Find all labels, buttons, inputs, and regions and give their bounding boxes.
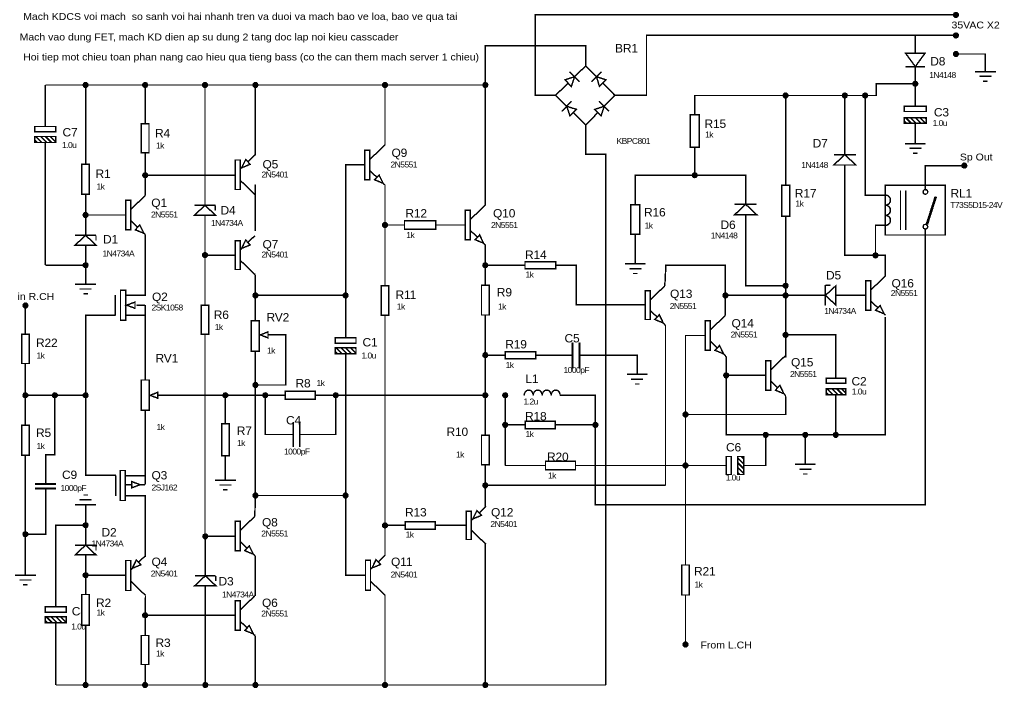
resistor R9 (482, 265, 513, 355)
svg-text:R16: R16 (644, 206, 666, 220)
potentiometer RV1 (141, 352, 178, 433)
svg-text:1k: 1k (548, 471, 557, 481)
svg-text:D1: D1 (103, 233, 119, 247)
transistor Q1 (126, 196, 179, 235)
wire Q3 drain to Q4 emitter (125, 496, 145, 557)
svg-text:1.0u: 1.0u (62, 140, 77, 150)
terminal 35VAC X2 (952, 12, 1000, 39)
svg-text:1k: 1k (406, 230, 415, 240)
svg-text:R14: R14 (525, 248, 547, 262)
svg-text:R11: R11 (396, 288, 417, 302)
wire Q1 emitter to Q2 drain (126, 235, 146, 296)
transistor Q12 (466, 506, 517, 545)
transistor Q7 (235, 236, 289, 275)
svg-text:1N4734A: 1N4734A (222, 590, 254, 600)
svg-text:D2: D2 (102, 526, 118, 540)
resistor R11 (381, 225, 416, 525)
svg-text:R21: R21 (694, 565, 716, 579)
ground symbol inverted above D2 (75, 495, 96, 525)
wire Q15 base (726, 374, 766, 376)
wire Q15 collector up (784, 335, 786, 358)
svg-text:From L.CH: From L.CH (701, 640, 752, 652)
svg-text:C4: C4 (286, 414, 302, 428)
svg-text:R10: R10 (447, 425, 469, 439)
svg-text:BR1: BR1 (615, 42, 638, 56)
capacitor C8 (45, 605, 87, 686)
svg-text:1k: 1k (695, 580, 704, 590)
wire Q7 collector to C1 node (255, 294, 345, 296)
ground on emitter bus (795, 435, 816, 474)
resistor R17 (782, 96, 817, 335)
resistor R4 (141, 85, 170, 175)
svg-text:D8: D8 (930, 55, 946, 69)
svg-text:1000pF: 1000pF (284, 447, 310, 457)
input terminal in R.CH (18, 291, 55, 309)
svg-text:Mach KDCS voi mach so sanh vo: Mach KDCS voi mach so sanh voi hai nhanh… (23, 11, 457, 23)
wire Q8 collector up (254, 496, 257, 517)
wire FET gate bus (86, 315, 116, 395)
wire Q9 collector to rail (384, 85, 386, 145)
resistor R15 (690, 84, 915, 176)
wire Q4 collector to Q6 base (145, 614, 235, 616)
wire R9 bottom to output node (484, 355, 486, 395)
terminal From L.CH (682, 640, 751, 652)
svg-text:Q15: Q15 (791, 356, 814, 370)
svg-text:2N5551: 2N5551 (151, 210, 178, 220)
wire Q8 base (205, 535, 235, 537)
svg-text:1k: 1k (237, 438, 246, 448)
wire Q11 collector to rail (384, 595, 386, 685)
wire input node (25, 394, 85, 396)
svg-text:1k: 1k (506, 360, 515, 370)
svg-text:1k: 1k (397, 302, 406, 312)
transistor Q6 (235, 596, 288, 635)
svg-text:1k: 1k (157, 422, 166, 432)
svg-text:1.0u: 1.0u (362, 351, 377, 361)
wire Q5 emitter to rail (254, 85, 257, 155)
wire rail to BR1 plus output (485, 46, 585, 85)
capacitor C2 (786, 335, 867, 435)
svg-text:1k: 1k (705, 130, 714, 140)
svg-text:D4: D4 (221, 204, 237, 218)
svg-text:RV1: RV1 (156, 352, 179, 366)
wire C1 line to Q11 base (346, 496, 366, 576)
svg-text:1N4148: 1N4148 (929, 70, 956, 80)
wire relay coil supply (865, 96, 885, 196)
wire Q4 emitter up (144, 556, 146, 557)
wire speaker line to relay (595, 235, 925, 505)
zener diode D1 (75, 215, 135, 265)
diode D6 (695, 175, 786, 286)
capacitor C3 (904, 84, 949, 144)
svg-text:R20: R20 (547, 450, 569, 464)
svg-text:R18: R18 (525, 410, 547, 424)
svg-text:35VAC X2: 35VAC X2 (952, 20, 1000, 32)
svg-text:R9: R9 (497, 286, 513, 300)
svg-text:Sp Out: Sp Out (960, 152, 993, 164)
wire Q4 collector down (144, 595, 146, 615)
transistor Q16 (866, 276, 918, 315)
wire Q12 collector to rail (484, 544, 487, 685)
transistor Q14 (705, 316, 758, 355)
wire Q14 collector up (724, 295, 726, 315)
svg-text:C1: C1 (363, 336, 379, 350)
svg-text:R8: R8 (296, 377, 312, 391)
wire Q8 emitter to Q6 collector (254, 556, 256, 596)
svg-text:2N5551: 2N5551 (670, 301, 697, 311)
wire Q9 emitter down (384, 185, 386, 225)
svg-text:1k: 1k (406, 530, 415, 540)
svg-text:C5: C5 (565, 332, 581, 346)
svg-text:Q3: Q3 (152, 469, 168, 483)
wire BR1 minus output to negative rail (586, 125, 606, 685)
wire Q10 emitter down (484, 245, 486, 266)
resistor R1 (82, 85, 111, 215)
wire feedback line (150, 394, 225, 396)
bridge rectifier BR1 (556, 42, 651, 147)
svg-text:C7: C7 (63, 126, 79, 140)
svg-text:D7: D7 (813, 137, 829, 151)
svg-text:2N5551: 2N5551 (261, 609, 288, 619)
zener diode D2 (75, 525, 124, 575)
svg-text:1000pF: 1000pF (61, 483, 87, 493)
svg-text:1k: 1k (97, 182, 106, 192)
svg-text:1.0u: 1.0u (852, 387, 867, 397)
wire Q8 node to Q11 base line (255, 495, 345, 497)
wire Q7 base (205, 254, 235, 256)
svg-text:2SJ162: 2SJ162 (152, 483, 178, 493)
svg-text:1k: 1k (267, 346, 276, 356)
zener diode D3 (195, 536, 255, 685)
diode D8 (906, 35, 957, 83)
svg-text:1N4734A: 1N4734A (92, 539, 124, 549)
resistor R13 (385, 506, 466, 540)
svg-text:R7: R7 (237, 424, 253, 438)
wire Q7 collector down (254, 274, 256, 295)
wire Q2 source to RV1 (144, 315, 146, 380)
svg-text:2N5551: 2N5551 (261, 529, 288, 539)
svg-text:C9: C9 (62, 468, 78, 482)
svg-text:2N5551: 2N5551 (790, 369, 817, 379)
wire Q12 emitter up (484, 485, 487, 506)
relay RL1 (885, 185, 1003, 235)
resistor R5 (22, 395, 52, 575)
wire L1 right (560, 395, 595, 425)
transistor Q8 (235, 516, 288, 556)
wire to C8 (56, 525, 86, 607)
svg-text:2N5401: 2N5401 (391, 570, 418, 580)
svg-text:2N5551: 2N5551 (731, 330, 758, 340)
capacitor C9 (25, 395, 86, 534)
resistor R18 (505, 410, 595, 440)
resistor R7 (222, 395, 253, 480)
wire Q6 emitter to rail (254, 635, 256, 685)
svg-text:1N4148: 1N4148 (711, 231, 738, 241)
ground below C5 (627, 373, 648, 375)
wire Q1 base (86, 214, 126, 216)
svg-text:1k: 1k (498, 302, 507, 312)
wire negative bottom rail (56, 684, 606, 686)
capacitor C1 (335, 295, 378, 495)
wire Q13 Q14 collectors to D5 (725, 294, 824, 296)
potentiometer RV2 (251, 295, 289, 385)
svg-text:R4: R4 (155, 127, 171, 141)
resistor R3 (141, 615, 171, 685)
svg-text:Q14: Q14 (732, 317, 755, 331)
svg-text:R5: R5 (36, 426, 52, 440)
svg-text:Q13: Q13 (670, 287, 693, 301)
ground below R7 (215, 479, 236, 481)
svg-text:1k: 1k (37, 351, 46, 361)
resistor R19 (485, 338, 571, 371)
wire output emitter bus (485, 484, 665, 486)
svg-text:1000pF: 1000pF (564, 365, 590, 375)
resistor R8 (285, 377, 485, 400)
svg-text:RV2: RV2 (267, 311, 290, 325)
svg-text:1k: 1k (156, 649, 165, 659)
wire Q9 base (346, 165, 365, 296)
svg-text:2N5551: 2N5551 (491, 220, 518, 230)
wire gate bus to Q3 (86, 395, 116, 475)
wire feedback to C4 R8 (225, 394, 285, 396)
svg-text:2N5401: 2N5401 (490, 519, 517, 529)
svg-text:1k: 1k (795, 199, 804, 209)
wire 35VAC line 1 to BR1 left (535, 15, 956, 96)
svg-text:2SK1058: 2SK1058 (152, 303, 184, 313)
wire Q1 collector up (144, 175, 146, 195)
wire Q15 emitter return (686, 395, 786, 414)
MOSFET Q3 (116, 469, 178, 501)
svg-text:R19: R19 (505, 338, 527, 352)
transistor Q10 (465, 205, 518, 244)
svg-text:L1: L1 (525, 372, 539, 386)
zener diode D5 (824, 269, 866, 317)
wire Q14 base (686, 336, 706, 415)
capacitor C5 (564, 332, 590, 376)
transistor Q5 (235, 155, 289, 194)
svg-text:R22: R22 (36, 336, 58, 350)
svg-text:2N5401: 2N5401 (262, 170, 289, 180)
wire node A riser (504, 395, 506, 465)
resistor R10 (447, 395, 490, 485)
transistor Q9 (365, 145, 418, 184)
transistor Q4 (126, 555, 178, 595)
resistor R2 (82, 575, 112, 685)
svg-text:Q1: Q1 (151, 196, 167, 210)
svg-text:1k: 1k (156, 141, 165, 151)
zener diode D4 (195, 85, 244, 255)
svg-text:1.0u: 1.0u (933, 118, 948, 128)
resistor R6 (201, 255, 229, 536)
wire RV2 down to Q8 collector node (254, 385, 256, 496)
wire BR1 right to 35VAC line 2 (615, 35, 956, 95)
svg-text:in R.CH: in R.CH (18, 291, 55, 303)
svg-text:1k: 1k (645, 221, 654, 231)
svg-text:Hoi tiep mot chieu toan phan n: Hoi tiep mot chieu toan phan nang cao hi… (23, 52, 479, 64)
svg-text:1k: 1k (37, 441, 46, 451)
resistor R12 (385, 207, 465, 240)
svg-text:1k: 1k (526, 270, 535, 280)
diode D7 (801, 96, 875, 256)
wire C5 to ground (580, 355, 638, 374)
svg-text:T73S5D15-24V: T73S5D15-24V (950, 200, 1003, 210)
wire Q5 collector to Q7 emitter (254, 185, 256, 231)
svg-text:Q12: Q12 (491, 506, 514, 520)
resistor R22 (22, 306, 58, 396)
terminal Sp Out (925, 152, 992, 186)
wire RV1 to Q3 (144, 410, 146, 485)
svg-text:Q11: Q11 (391, 555, 413, 569)
svg-text:Q9: Q9 (392, 146, 408, 160)
wire Q13 emitter riser (664, 324, 667, 485)
svg-text:1N4734A: 1N4734A (211, 218, 243, 228)
capacitor C4 (265, 395, 336, 456)
svg-text:RL1: RL1 (951, 187, 973, 201)
svg-text:1.0u: 1.0u (726, 473, 741, 483)
svg-text:R1: R1 (96, 167, 112, 181)
ground below R16 (625, 263, 646, 265)
svg-text:1k: 1k (526, 429, 535, 439)
wire Q4 base (86, 574, 126, 576)
svg-text:KBPC801: KBPC801 (617, 136, 651, 146)
svg-text:R13: R13 (405, 506, 427, 520)
wire Q13 collector (665, 265, 726, 295)
inductor L1 (524, 372, 561, 407)
capacitor C7 (35, 85, 86, 265)
wire Q16 collector up (876, 255, 886, 275)
svg-text:1k: 1k (97, 608, 106, 618)
wire Q10 collector to rail (484, 85, 486, 205)
svg-text:1N4734A: 1N4734A (824, 306, 856, 316)
wire Q14 emitter ground bus (726, 317, 885, 435)
svg-text:1N4148: 1N4148 (801, 160, 828, 170)
svg-text:2N5401: 2N5401 (262, 250, 289, 260)
transistor Q15 (766, 356, 818, 396)
resistor R14 (485, 248, 645, 305)
MOSFET Q2 (115, 290, 183, 320)
svg-text:R6: R6 (214, 308, 230, 322)
svg-text:1k: 1k (317, 378, 326, 388)
arrow RV1 wiper (150, 392, 158, 398)
svg-text:Mach vao dung FET, mach KD die: Mach vao dung FET, mach KD dien ap su du… (20, 31, 399, 43)
svg-text:2N5401: 2N5401 (151, 569, 178, 579)
svg-text:1.2u: 1.2u (524, 397, 539, 407)
svg-text:Q8: Q8 (262, 516, 278, 530)
wire Q5 base (145, 174, 235, 176)
svg-text:1N4734A: 1N4734A (103, 249, 135, 259)
svg-text:D3: D3 (219, 575, 235, 589)
svg-text:1k: 1k (456, 450, 465, 460)
ground below C3 (905, 143, 926, 145)
ground below R5 (15, 574, 36, 576)
resistor R16 (631, 175, 695, 264)
svg-text:Q10: Q10 (493, 207, 516, 221)
ground AC center tap (953, 51, 996, 81)
svg-text:R12: R12 (405, 207, 427, 221)
transistor Q13 (645, 286, 697, 325)
wire positive top rail (45, 84, 485, 86)
wire Q14 emitter down (725, 355, 726, 375)
wire relay coil return (876, 225, 886, 255)
ground below D1 (75, 265, 96, 294)
svg-text:1k: 1k (215, 322, 224, 332)
capacitor C6 (686, 435, 766, 483)
svg-text:Q4: Q4 (152, 555, 168, 569)
svg-text:C6: C6 (726, 441, 742, 455)
svg-text:2N5551: 2N5551 (391, 160, 418, 170)
svg-text:2N5551: 2N5551 (891, 288, 918, 298)
wire Q11 emitter up (384, 525, 386, 555)
transistor Q11 (366, 555, 418, 595)
svg-text:D5: D5 (826, 269, 842, 283)
resistor R20 (505, 450, 685, 481)
resistor R21 (682, 415, 716, 645)
